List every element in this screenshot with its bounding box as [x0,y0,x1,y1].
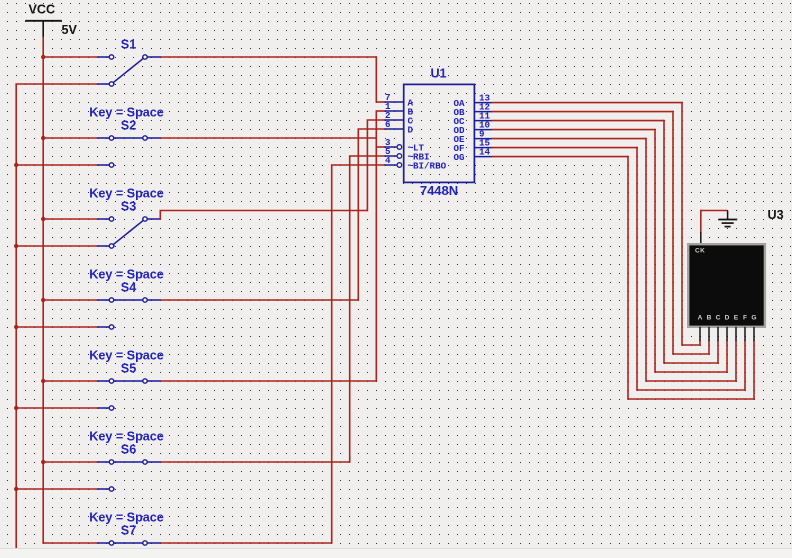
wire S6 riser up to pin 5 [349,156,351,463]
wire VCC feed to S5 upper throw [42,380,98,382]
switch S5 [98,379,161,410]
wire pin4 horizontal [331,164,385,166]
display CK pin stub [700,232,702,244]
wire S6 output [160,461,349,463]
wire S7 output [160,542,331,544]
wire S2 output [160,137,376,139]
wire OE to E vertical [645,138,647,381]
wire VCC feed to S1 upper throw [42,56,98,58]
junction at VCC bus S2 [41,136,45,140]
wire S4 output [160,299,358,301]
wire pin3 horizontal [376,146,386,148]
display segment labels A-G [698,314,757,321]
wire OC to C up to pin [717,341,719,364]
wire pin5 horizontal [349,155,385,157]
wire OA to A horizontal [492,102,683,104]
wire S5 output [160,380,377,382]
junction at lower bus S2 [14,163,18,167]
switch S1 [98,55,161,86]
wire OA to A up to pin [699,341,701,346]
wire OF to F horizontal [492,147,638,149]
wire bus feed to S3 lower throw [15,245,98,247]
wire pin2 horizontal [367,119,385,121]
wire VCC feed to S6 upper throw [42,461,98,463]
wire OG to G vertical [627,156,629,399]
wire OD to D horizontal [492,129,656,131]
wire OD to D up to pin [726,341,728,373]
junction at lower bus S5 [14,406,18,410]
pin 9 stub (OE) [474,138,492,140]
wire OB to B vertical [672,111,674,354]
wire lower-throw bus vertical [15,84,17,549]
pin 15 stub (OF) [474,147,492,149]
wire S1 output to riser [160,56,376,58]
wire OF to F up to pin [744,341,746,391]
pin 14 stub (OG) [474,156,492,158]
wire OE to E up to pin [735,341,737,382]
switch S3 [98,217,161,248]
pin 13 stub (OA) [474,102,492,104]
wire VCC bus vertical [42,37,44,543]
wire VCC feed to S4 upper throw [42,299,98,301]
ground symbol [719,211,738,227]
pin 12 stub (OB) [474,111,492,113]
wire OC to C horizontal [492,120,665,122]
wire bus feed to S4 lower throw [15,326,98,328]
junction at VCC bus S4 [41,298,45,302]
wire S4 riser up to pin 6 [357,129,359,301]
switch S4 [98,298,161,329]
wire S3 output horizontal [160,210,368,212]
pin 4 stub (~BI/RBO) [385,164,397,166]
pin 7 stub (A) [385,101,404,103]
junction at lower bus S6 [14,487,18,491]
wire bus feed to S5 lower throw [15,407,98,409]
op-amp U1 body 7448N [404,84,475,182]
seven-segment display U3 body [688,244,765,327]
switch S7 [98,541,161,545]
pin 5 stub (~RBI) [385,155,397,157]
junction at VCC bus S5 [41,379,45,383]
wire OC to C bottom run [663,362,718,364]
wire column riser pin1 to S5 [375,111,377,381]
wire OD to D bottom run [654,371,727,373]
wire OG to G up to pin [753,341,755,400]
wire OA to A bottom run [681,344,700,346]
wire OE to E horizontal [492,138,647,140]
power VCC symbol [25,21,62,38]
wire OB to B horizontal [492,111,674,113]
junction at VCC bus S6 [41,460,45,464]
wire OG to G bottom run [627,398,754,400]
wire OD to D vertical [654,129,656,372]
switch S6 [98,460,161,491]
wire bus feed to S1 lower throw [15,83,98,85]
wire OG to G horizontal [492,156,629,158]
wire VCC feed to S7 upper throw [42,542,98,544]
wire OE to E bottom run [645,380,736,382]
wire bus feed to S6 lower throw [15,488,98,490]
junction at lower bus S3 [14,244,18,248]
pin 2 stub (C) [385,119,404,121]
wire OB to B bottom run [672,353,709,355]
junction at VCC bus S1 [41,55,45,59]
junction at VCC bus S3 [41,217,45,221]
wire OF to F bottom run [636,389,745,391]
pin 6 stub (D) [385,128,404,130]
wire OA to A vertical [681,102,683,345]
wire pin7 horizontal [376,101,386,103]
pin 10 stub (OD) [474,129,492,131]
wire bus feed to S2 lower throw [15,164,98,166]
pin 1 stub (B) [385,110,404,112]
wire S3 riser up to pin 2 [366,120,368,211]
ground wire from CK [701,210,728,212]
wire OF to F vertical [636,147,638,390]
switch S2 [98,136,161,167]
wire S1 riser down to pin 7 [375,56,377,102]
wire pin6 horizontal [358,128,386,130]
pin 11 stub (OC) [474,120,492,122]
pin 3 stub (~LT) [385,146,397,148]
wire S3 output jog [159,211,161,220]
wire OB to B up to pin [708,341,710,355]
wire S7 riser up to pin 4 [331,165,333,544]
wire VCC feed to S2 upper throw [42,137,98,139]
decorative scrollbar [0,548,792,558]
wire pin1 horizontal [376,110,386,112]
wire VCC feed to S3 upper throw [42,218,98,220]
junction at lower bus S4 [14,325,18,329]
display pins A-G stubs [700,327,754,341]
wire OC to C vertical [663,120,665,363]
